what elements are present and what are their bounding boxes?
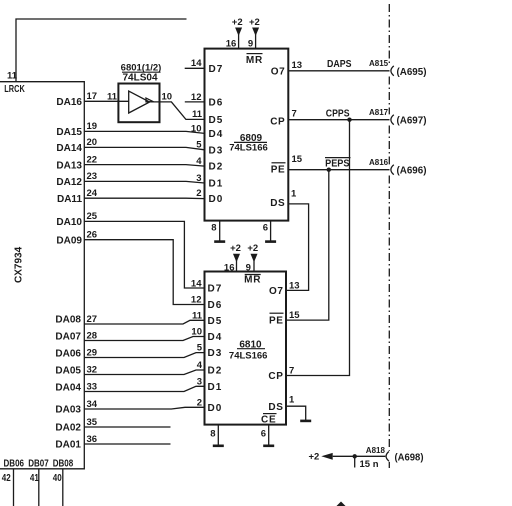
svg-text:MR: MR bbox=[244, 275, 261, 286]
svg-text:D6: D6 bbox=[209, 98, 224, 109]
wire IC2 DS to ground bbox=[286, 406, 311, 421]
svg-text:DA11: DA11 bbox=[57, 194, 82, 205]
wire DB06 bbox=[13, 469, 15, 506]
svg-text:23: 23 bbox=[87, 171, 98, 182]
svg-text:(A695): (A695) bbox=[397, 67, 427, 78]
inverter U6801 box bbox=[118, 84, 159, 123]
IC U6810 value label bbox=[229, 339, 268, 361]
IC U6810 pin CE label bbox=[261, 414, 277, 426]
wire CPPS (CP to connector A817) bbox=[288, 119, 389, 121]
power +2 (IC1 pin 16) bbox=[232, 17, 243, 49]
wire DAPS (O7 to connector A815) bbox=[288, 70, 389, 72]
svg-text:41: 41 bbox=[30, 473, 39, 484]
svg-text:15: 15 bbox=[292, 154, 303, 165]
wire DA10 to IC2 D7 bbox=[84, 221, 204, 288]
svg-text:DB06: DB06 bbox=[4, 459, 25, 470]
wire LRCK pin 11 to IC1 D7 area bbox=[16, 19, 187, 82]
svg-text:DA05: DA05 bbox=[55, 366, 81, 377]
IC CX7934 body (top edge, right edge, bottom edge) bbox=[0, 82, 84, 469]
svg-text:DA03: DA03 bbox=[55, 405, 81, 416]
svg-text:2: 2 bbox=[197, 397, 202, 408]
svg-text:DAPS: DAPS bbox=[327, 59, 352, 70]
net label PEPS bbox=[325, 158, 351, 170]
connector (A698) bbox=[386, 452, 389, 462]
svg-text:CP: CP bbox=[268, 371, 283, 382]
svg-text:25: 25 bbox=[87, 211, 98, 222]
svg-text:D0: D0 bbox=[209, 194, 224, 205]
IC U6809 pin PE bbox=[271, 163, 286, 176]
svg-text:D7: D7 bbox=[209, 64, 224, 75]
svg-text:MR: MR bbox=[246, 55, 263, 66]
wire DA09 to IC2 D6 bbox=[84, 240, 204, 305]
svg-text:CE: CE bbox=[261, 414, 277, 425]
wire PEPS junction down to IC2 PE bbox=[286, 170, 329, 320]
svg-text:(A697): (A697) bbox=[397, 116, 427, 127]
svg-text:3: 3 bbox=[196, 173, 201, 184]
inverter U6801 inversion wedge bbox=[146, 98, 154, 102]
inverter U6801 label bbox=[121, 63, 162, 84]
svg-text:D4: D4 bbox=[208, 332, 223, 343]
svg-text:DA16: DA16 bbox=[56, 97, 82, 108]
wire DA11 to IC1 D0 bbox=[84, 197, 204, 199]
svg-text:D2: D2 bbox=[209, 162, 224, 173]
svg-text:13: 13 bbox=[292, 60, 303, 71]
svg-text:DA13: DA13 bbox=[56, 160, 82, 171]
IC U6809 74LS166 box bbox=[205, 49, 289, 221]
connector (A695) bbox=[391, 66, 394, 76]
svg-text:10: 10 bbox=[191, 123, 202, 134]
svg-text:24: 24 bbox=[87, 188, 98, 199]
power +2 (IC1 pin 9) bbox=[249, 17, 260, 49]
svg-text:A815: A815 bbox=[369, 59, 389, 68]
svg-text:DA04: DA04 bbox=[55, 383, 81, 394]
svg-text:11: 11 bbox=[192, 109, 203, 120]
svg-text:DA06: DA06 bbox=[55, 349, 81, 360]
IC U6809 value label bbox=[229, 133, 268, 153]
svg-text:8: 8 bbox=[210, 429, 215, 440]
svg-text:+2: +2 bbox=[309, 452, 320, 463]
svg-text:D1: D1 bbox=[208, 382, 223, 393]
wire DB07 bbox=[38, 469, 40, 506]
svg-text:4: 4 bbox=[197, 360, 203, 371]
svg-text:+2: +2 bbox=[230, 243, 241, 254]
wire DA07 to IC2 D4 bbox=[84, 337, 204, 341]
svg-text:4: 4 bbox=[196, 156, 202, 167]
svg-text:11: 11 bbox=[192, 310, 203, 321]
svg-text:15 n: 15 n bbox=[360, 459, 379, 470]
power +2 (IC2 pin 16) bbox=[230, 243, 241, 271]
wire DA04 to IC2 D1 bbox=[84, 386, 204, 391]
svg-text:D3: D3 bbox=[208, 348, 223, 359]
svg-text:12: 12 bbox=[191, 92, 202, 103]
svg-text:DA14: DA14 bbox=[56, 143, 82, 154]
wire DA03 to IC2 D0 bbox=[84, 407, 204, 409]
svg-text:3: 3 bbox=[197, 376, 202, 387]
svg-text:+2: +2 bbox=[249, 17, 260, 28]
svg-text:DA02: DA02 bbox=[55, 423, 81, 434]
IC U6810 pin 6 ground bbox=[261, 425, 274, 446]
svg-text:PE: PE bbox=[271, 164, 286, 175]
svg-text:15: 15 bbox=[289, 310, 300, 321]
svg-text:DA10: DA10 bbox=[56, 217, 82, 228]
svg-text:+2: +2 bbox=[247, 243, 258, 254]
svg-text:DA01: DA01 bbox=[55, 440, 81, 451]
svg-text:12: 12 bbox=[191, 295, 202, 306]
svg-text:(A698): (A698) bbox=[395, 452, 424, 463]
svg-text:DB07: DB07 bbox=[28, 459, 49, 470]
wire CPPS junction down to IC2 CP bbox=[286, 120, 350, 376]
svg-text:74LS04: 74LS04 bbox=[122, 72, 157, 83]
IC U6809 pin 6 ground bbox=[263, 221, 276, 242]
svg-text:DB08: DB08 bbox=[53, 459, 74, 470]
svg-text:D3: D3 bbox=[209, 145, 224, 156]
IC U6810 74LS166 box bbox=[205, 272, 287, 425]
svg-text:13: 13 bbox=[289, 280, 300, 291]
svg-text:D4: D4 bbox=[209, 129, 224, 140]
junction CPPS bbox=[347, 118, 351, 122]
connector (A696) bbox=[391, 165, 394, 175]
svg-text:D5: D5 bbox=[209, 115, 224, 126]
svg-text:26: 26 bbox=[87, 230, 98, 241]
svg-text:PE: PE bbox=[269, 316, 284, 327]
svg-text:17: 17 bbox=[87, 91, 98, 102]
wire DA02 stub bbox=[84, 426, 170, 428]
svg-text:DA09: DA09 bbox=[56, 236, 82, 247]
wire DA13 to IC1 D2 bbox=[84, 165, 204, 167]
svg-text:2: 2 bbox=[196, 188, 201, 199]
svg-text:D7: D7 bbox=[208, 284, 223, 295]
junction PEPS bbox=[327, 168, 331, 172]
svg-text:42: 42 bbox=[2, 473, 11, 484]
IC U6809 pin 8 ground bbox=[211, 221, 225, 242]
svg-text:1: 1 bbox=[289, 395, 295, 406]
svg-text:DS: DS bbox=[268, 402, 283, 413]
wire DB08 bbox=[62, 469, 64, 506]
svg-text:10: 10 bbox=[191, 327, 202, 338]
IC U6810 pin PE bbox=[269, 313, 284, 327]
svg-text:10: 10 bbox=[162, 92, 173, 103]
svg-text:14: 14 bbox=[191, 58, 202, 69]
wire DA06 to IC2 D3 bbox=[84, 353, 204, 358]
wire inverter output to IC1 D5 bbox=[150, 102, 205, 120]
svg-text:74LS166: 74LS166 bbox=[229, 142, 268, 153]
connector (A697) bbox=[391, 115, 394, 125]
svg-text:22: 22 bbox=[87, 154, 98, 165]
capacitor 15n stub bbox=[354, 456, 356, 467]
svg-text:40: 40 bbox=[53, 473, 62, 484]
svg-text:DS: DS bbox=[270, 198, 285, 209]
svg-text:A816: A816 bbox=[369, 158, 389, 167]
power +2 feed at A818 bbox=[309, 452, 386, 463]
svg-text:(A696): (A696) bbox=[397, 166, 427, 177]
junction A818 bbox=[353, 454, 357, 458]
svg-text:CP: CP bbox=[270, 116, 285, 127]
svg-text:O7: O7 bbox=[271, 66, 286, 77]
svg-text:DA07: DA07 bbox=[55, 332, 81, 343]
wire DA01 stub bbox=[84, 443, 170, 445]
wire DA14 to IC1 D3 bbox=[84, 147, 204, 149]
svg-text:D0: D0 bbox=[208, 403, 223, 414]
svg-text:DA12: DA12 bbox=[56, 177, 82, 188]
svg-text:D1: D1 bbox=[209, 179, 224, 190]
IC U6810 pin 8 ground bbox=[210, 425, 224, 446]
wire DA15 to IC1 D4 bbox=[84, 131, 204, 133]
svg-text:D5: D5 bbox=[208, 316, 223, 327]
svg-text:A818: A818 bbox=[366, 446, 386, 455]
svg-text:9: 9 bbox=[248, 39, 253, 50]
wire DA12 to IC1 D1 bbox=[84, 181, 204, 183]
svg-text:1: 1 bbox=[291, 189, 297, 200]
wire IC1 DS to IC2 O7 bbox=[286, 204, 309, 291]
svg-text:20: 20 bbox=[87, 137, 98, 148]
svg-text:+2: +2 bbox=[232, 17, 243, 28]
wire IC1 D7 stub bbox=[185, 67, 205, 69]
IC U6810 pin MR label bbox=[244, 275, 261, 286]
svg-text:D6: D6 bbox=[208, 300, 223, 311]
svg-text:14: 14 bbox=[191, 278, 202, 289]
svg-text:A817: A817 bbox=[369, 108, 389, 117]
svg-text:CX7934: CX7934 bbox=[14, 246, 25, 283]
wire DA08 to IC2 D5 bbox=[84, 320, 204, 324]
svg-text:DA08: DA08 bbox=[55, 315, 81, 326]
IC U6809 pin MR label bbox=[246, 54, 263, 66]
svg-text:8: 8 bbox=[211, 222, 216, 233]
svg-text:6: 6 bbox=[261, 429, 266, 440]
boundary dash-dot line bbox=[388, 4, 390, 468]
svg-text:6: 6 bbox=[263, 222, 268, 233]
svg-text:7: 7 bbox=[289, 366, 294, 377]
svg-text:11: 11 bbox=[7, 71, 18, 82]
svg-text:DA15: DA15 bbox=[56, 127, 82, 138]
svg-text:D2: D2 bbox=[208, 366, 223, 377]
wire PEPS (PE to connector A816) bbox=[288, 169, 389, 171]
svg-text:O7: O7 bbox=[269, 286, 284, 297]
wire DA16 to inverter input bbox=[84, 100, 128, 102]
power +2 (IC2 pin 9) bbox=[247, 243, 258, 271]
power arrow tip (cut off, bottom) bbox=[337, 502, 346, 506]
svg-text:5: 5 bbox=[197, 343, 203, 354]
svg-text:19: 19 bbox=[87, 121, 98, 132]
svg-text:CPPS: CPPS bbox=[326, 108, 350, 119]
svg-text:5: 5 bbox=[196, 140, 202, 151]
wire IC1 D6 stub bbox=[185, 101, 205, 103]
svg-text:7: 7 bbox=[292, 109, 297, 120]
svg-text:16: 16 bbox=[226, 39, 237, 50]
inverter U6801 triangle bbox=[129, 91, 150, 113]
wire DA05 to IC2 D2 bbox=[84, 370, 204, 375]
svg-text:11: 11 bbox=[107, 91, 118, 102]
svg-text:74LS166: 74LS166 bbox=[229, 351, 268, 362]
svg-text:LRCK: LRCK bbox=[4, 84, 25, 95]
